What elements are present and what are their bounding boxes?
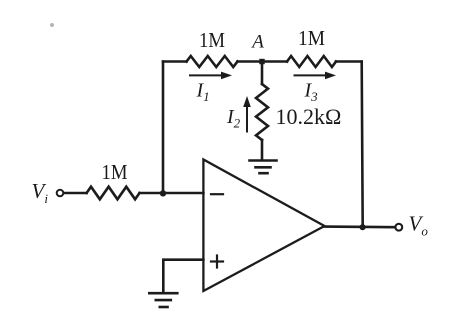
svg-text:A: A bbox=[250, 31, 264, 52]
wire node A down to R3 bbox=[261, 62, 264, 85]
ground under R3 bbox=[250, 161, 277, 174]
wire top horizontal left segment bbox=[163, 60, 187, 63]
resistor R3 10.2k (vertical) bbox=[256, 84, 268, 140]
terminal Vi open circle bbox=[57, 190, 64, 197]
node A junction dot bbox=[259, 59, 264, 64]
node at inverting input junction bbox=[160, 190, 166, 196]
svg-text:Vo: Vo bbox=[409, 212, 429, 239]
wire between R1 and node A bbox=[238, 60, 288, 63]
wire op-amp noninverting input bbox=[163, 260, 203, 292]
wire top-left vertical (feedback left leg) bbox=[162, 62, 165, 194]
scan speck artifact bbox=[50, 23, 54, 27]
wire input terminal to R4 bbox=[63, 192, 86, 195]
svg-text:1M: 1M bbox=[102, 160, 128, 184]
arrow I3 bbox=[294, 72, 337, 80]
svg-text:10.2kΩ: 10.2kΩ bbox=[276, 104, 342, 129]
minus sign of op-amp bbox=[211, 193, 223, 195]
wire R3 to ground bbox=[261, 140, 264, 160]
wire output bbox=[325, 225, 396, 228]
node at output junction bbox=[360, 224, 366, 230]
resistor R1 1M (top-left) bbox=[187, 56, 238, 67]
resistor R2 1M (top-right) bbox=[287, 56, 336, 67]
arrow I1 bbox=[189, 72, 232, 80]
resistor R4 1M (input) bbox=[87, 187, 140, 200]
svg-text:1M: 1M bbox=[199, 28, 225, 52]
svg-text:I1: I1 bbox=[196, 80, 210, 105]
op-amp U1 triangle bbox=[203, 160, 324, 292]
ground at noninverting input bbox=[149, 293, 177, 307]
svg-text:I3: I3 bbox=[304, 80, 319, 105]
svg-text:Vi: Vi bbox=[32, 179, 49, 206]
plus sign of op-amp bbox=[211, 256, 223, 268]
svg-text:I2: I2 bbox=[226, 106, 241, 131]
wire between R2 and top-right corner bbox=[336, 60, 362, 63]
wire right vertical (feedback right leg) bbox=[362, 62, 363, 228]
wire R4 to op-amp inverting input bbox=[140, 192, 204, 195]
svg-text:1M: 1M bbox=[298, 26, 325, 50]
terminal Vo open circle bbox=[395, 224, 402, 231]
arrow I2 bbox=[243, 96, 251, 133]
